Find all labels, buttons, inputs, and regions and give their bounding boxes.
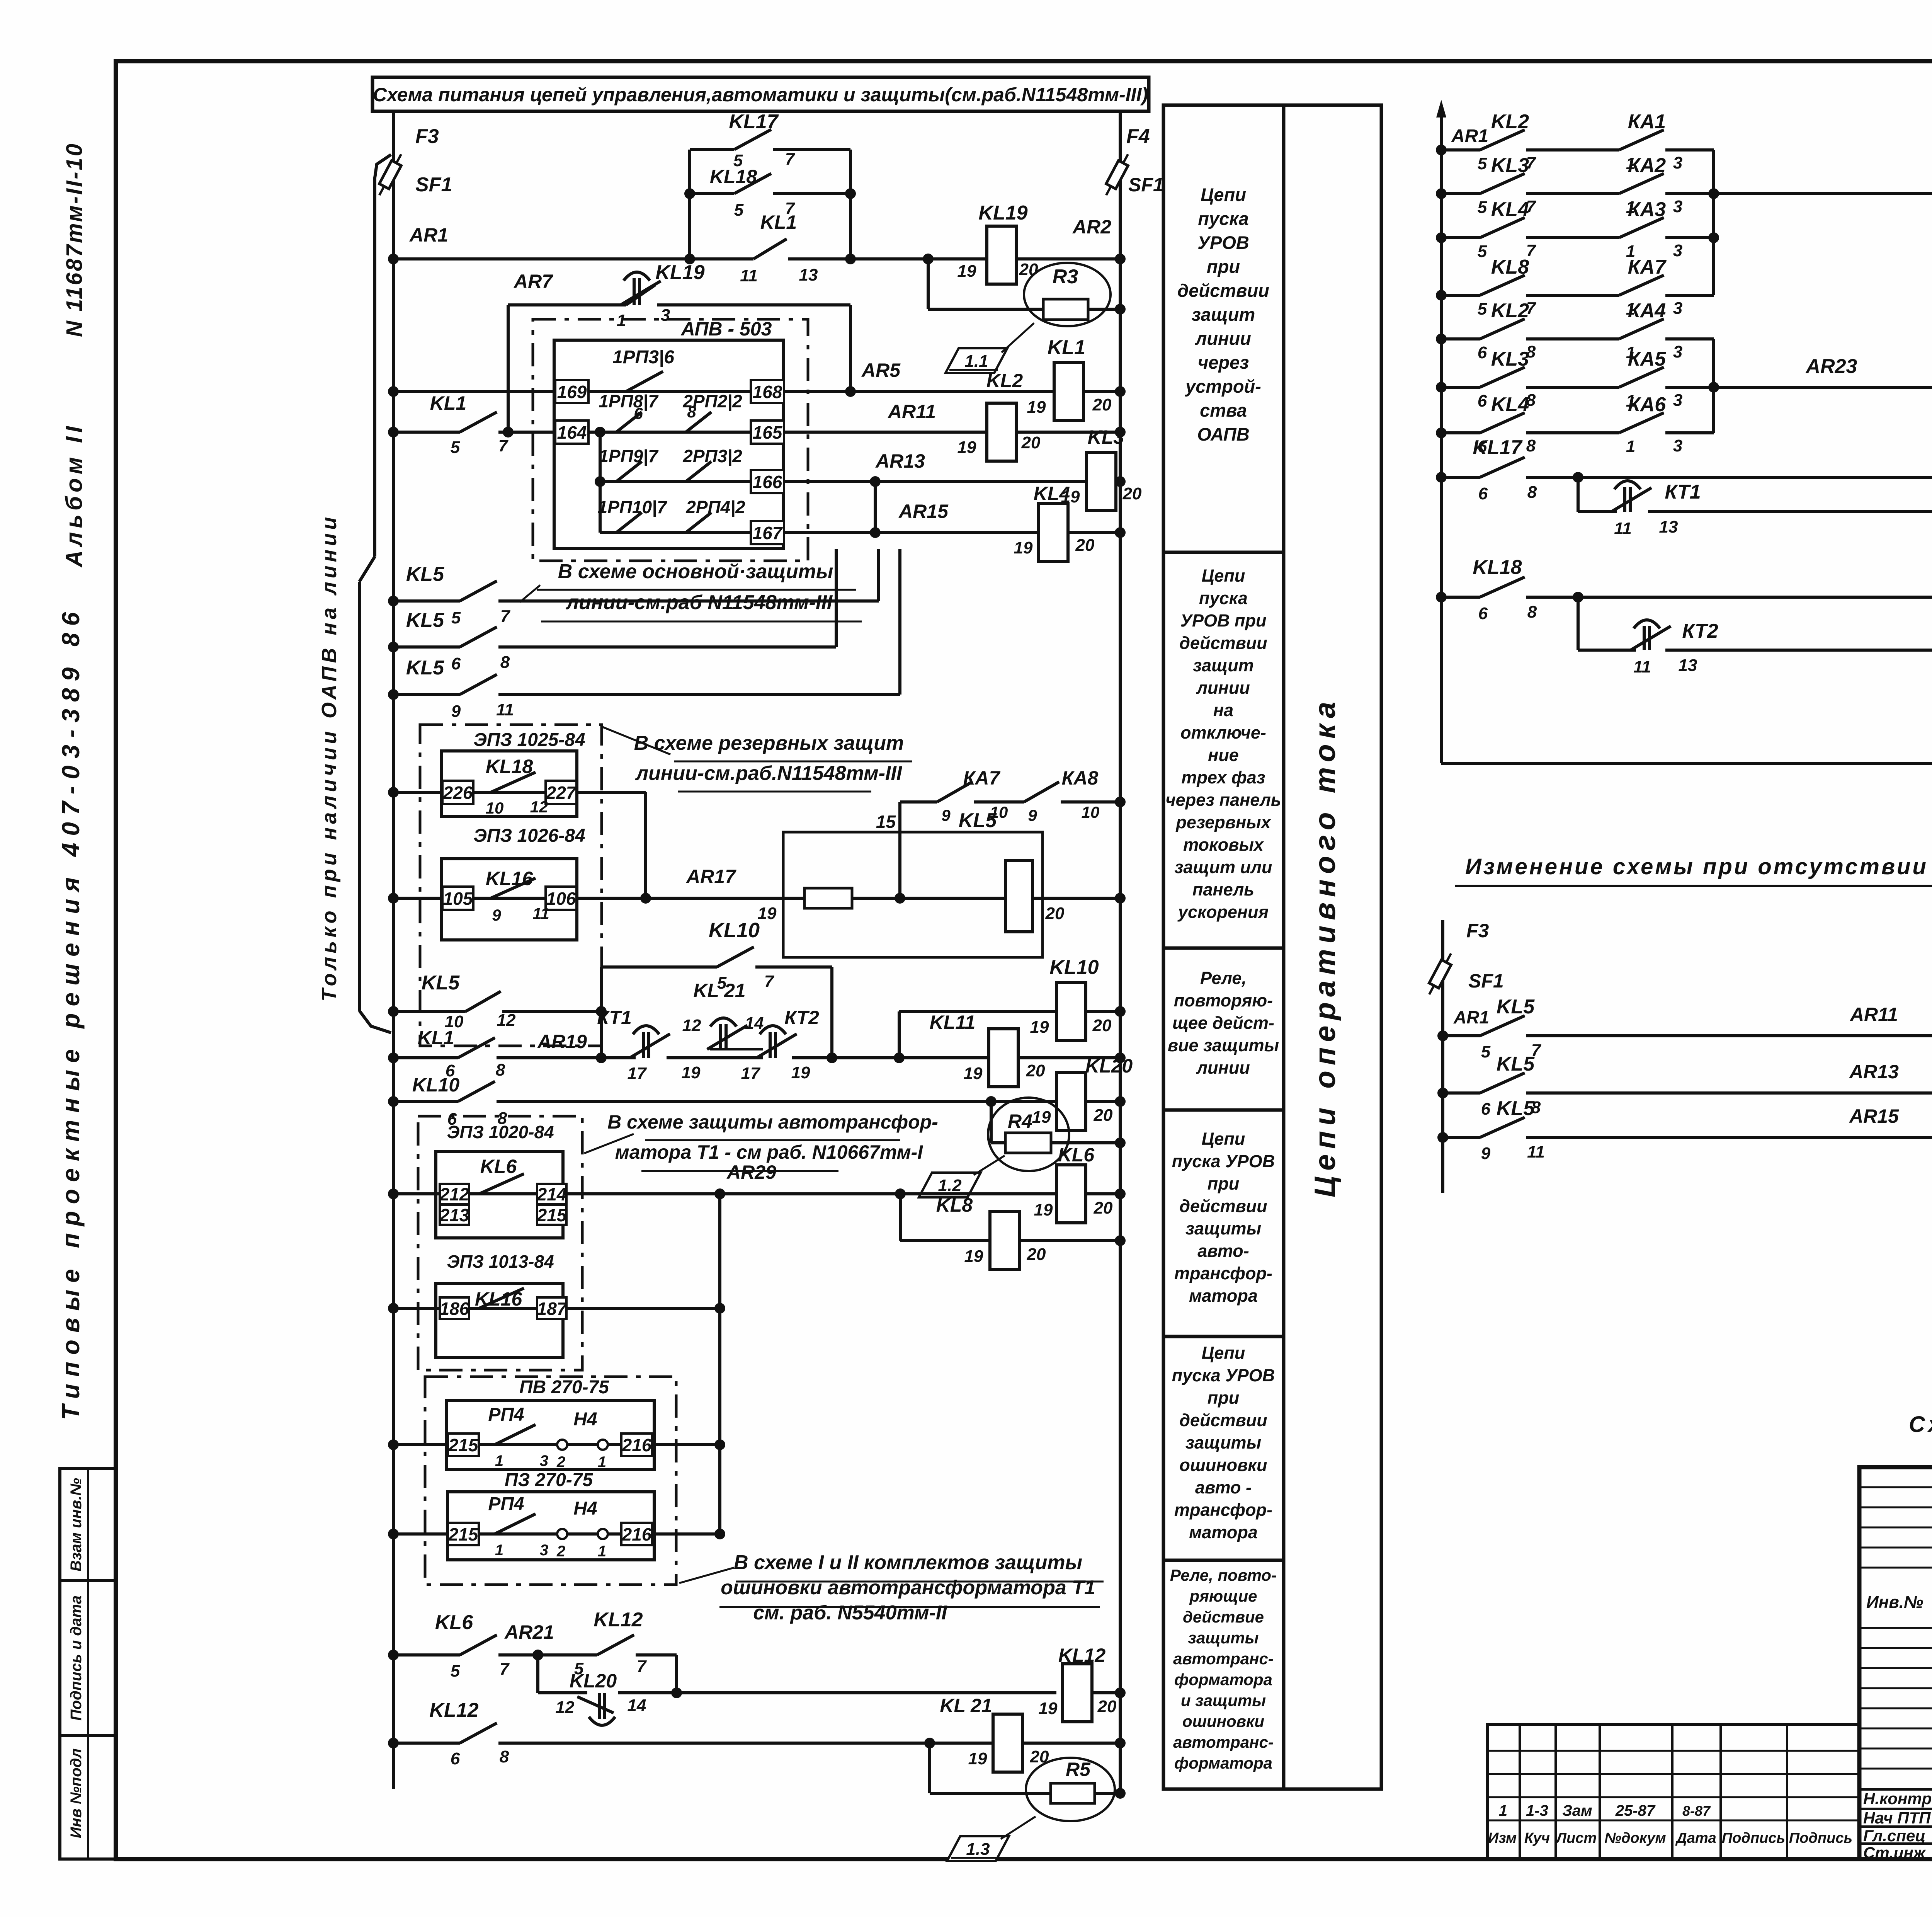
svg-text:ние: ние [1208, 745, 1239, 765]
svg-text:матора: матора [1189, 1286, 1258, 1306]
wire KL5 riser 9 [898, 549, 901, 695]
svg-text:трансфор-: трансфор- [1174, 1263, 1272, 1283]
svg-text:8: 8 [500, 1747, 509, 1766]
svg-text:матора Т1 - см раб. N10667тм-I: матора Т1 - см раб. N10667тм-I [615, 1141, 923, 1163]
svg-text:KL2: KL2 [1491, 300, 1529, 322]
svg-text:линии: линии [1195, 328, 1251, 349]
relay coil KL19 [987, 226, 1016, 284]
svg-text:Куч: Куч [1524, 1830, 1550, 1846]
wire KL18 row [690, 192, 734, 195]
svg-text:КА4: КА4 [1628, 300, 1666, 322]
svg-text:8: 8 [1526, 436, 1536, 455]
wire KT row [393, 1056, 458, 1059]
svg-text:19: 19 [957, 262, 976, 281]
svg-text:8: 8 [496, 1061, 505, 1079]
svg-text:7: 7 [637, 1657, 647, 1676]
svg-text:KL16: KL16 [486, 868, 533, 889]
fuse SF1 lower-left [1424, 951, 1456, 997]
wire KL12 6-8 row [393, 1742, 460, 1745]
contact RP4 row 1 [495, 1425, 536, 1445]
svg-text:через панель: через панель [1165, 790, 1281, 810]
terminal 212 [440, 1184, 469, 1204]
wire RP4 row 1 [393, 1443, 720, 1446]
wire KT1 contact row [1577, 477, 1580, 512]
svg-text:Дата: Дата [1675, 1830, 1716, 1846]
svg-text:Взам инв.№: Взам инв.№ [68, 1478, 85, 1571]
terminal 227 [546, 781, 577, 804]
svg-text:19: 19 [1030, 1018, 1049, 1037]
svg-text:Реле, повто-: Реле, повто- [1170, 1566, 1277, 1584]
svg-text:KL20: KL20 [1085, 1055, 1133, 1077]
svg-text:KL19: KL19 [978, 202, 1027, 224]
svg-text:при: при [1207, 1174, 1239, 1193]
svg-text:1РП3|6: 1РП3|6 [612, 347, 674, 368]
svg-text:1РП10|7: 1РП10|7 [598, 497, 668, 517]
contact 1RP8/7 [616, 412, 642, 432]
wire row KL2/КА1 [1441, 148, 1480, 152]
svg-text:на: на [1213, 700, 1233, 720]
svg-text:AR13: AR13 [1849, 1061, 1899, 1083]
contact KL12 6-8 [460, 1723, 497, 1743]
svg-text:KL 21: KL 21 [940, 1695, 992, 1716]
svg-text:KL8: KL8 [1491, 256, 1529, 278]
svg-text:1: 1 [1499, 1802, 1507, 1819]
svg-text:автотранс-: автотранс- [1173, 1650, 1274, 1668]
svg-text:1: 1 [495, 1452, 503, 1469]
svg-text:KL17: KL17 [729, 111, 779, 133]
contact KL12 5-7 [597, 1635, 634, 1655]
svg-text:8-87: 8-87 [1682, 1803, 1711, 1819]
resistor R5 [1051, 1783, 1095, 1803]
column divider [1163, 1559, 1284, 1562]
svg-text:Изменение схемы при отсутст: Изменение схемы при отсутствии ОАПВ на л… [1465, 854, 1932, 879]
svg-text:12: 12 [556, 1698, 575, 1717]
svg-text:AR5: AR5 [861, 359, 901, 381]
svg-text:AR2: AR2 [1072, 216, 1111, 238]
svg-text:KL 21: KL 21 [693, 980, 745, 1001]
contact KL2 5-7 [1480, 130, 1525, 150]
svg-text:и защиты: и защиты [1181, 1691, 1266, 1709]
contact KA8 9-10 [1024, 782, 1059, 802]
wire row KL3/КА2 [1441, 192, 1480, 195]
svg-text:AR11: AR11 [887, 401, 936, 422]
svg-text:19: 19 [1032, 1108, 1051, 1127]
relay coil KL11 [989, 1029, 1018, 1087]
svg-text:KL10: KL10 [709, 919, 760, 942]
svg-text:AR17: AR17 [685, 866, 736, 887]
contact KL4 5-7 [1480, 218, 1525, 238]
terminal 106 [546, 887, 577, 910]
svg-text:резервных: резервных [1175, 812, 1271, 832]
svg-text:166: 166 [753, 472, 782, 492]
svg-text:AR23: AR23 [1805, 355, 1857, 378]
wire KL10 branch [600, 967, 603, 1058]
svg-text:КТ2: КТ2 [784, 1007, 819, 1028]
svg-text:10: 10 [1082, 803, 1100, 821]
svg-text:5: 5 [451, 438, 460, 457]
svg-text:20: 20 [1094, 1199, 1113, 1217]
contact KL6 [479, 1174, 524, 1194]
svg-text:6: 6 [1478, 604, 1488, 623]
svg-text:215: 215 [448, 1435, 479, 1455]
svg-text:19: 19 [791, 1063, 810, 1082]
svg-text:KL6: KL6 [435, 1611, 473, 1634]
contact 2RP2/2 [686, 412, 711, 432]
relay coil KL8 [990, 1212, 1019, 1270]
contact KT1 time 11-13 [1611, 481, 1651, 512]
svg-text:19: 19 [758, 904, 777, 923]
svg-text:15: 15 [876, 812, 896, 832]
contact KT1 17-19 [630, 1026, 670, 1058]
svg-text:2РП3|2: 2РП3|2 [682, 446, 742, 466]
contact КА5 1-3 [1619, 367, 1664, 387]
svg-text:KL11: KL11 [930, 1011, 976, 1033]
svg-text:пуска: пуска [1199, 588, 1248, 608]
flag 1.1 [946, 348, 1007, 373]
svg-text:3: 3 [1673, 153, 1682, 172]
svg-text:7: 7 [764, 972, 775, 991]
svg-text:линии: линии [1196, 678, 1250, 698]
terminal 166 [751, 470, 784, 493]
contact KL5 9-11 [460, 674, 497, 695]
wire AR15 row [600, 531, 1039, 534]
svg-text:168: 168 [753, 382, 782, 402]
svg-text:В схеме I и II комплектов защ: В схеме I и II комплектов защиты [734, 1551, 1082, 1574]
block APV-503 dashed outline [533, 319, 808, 561]
svg-text:1РП9|7: 1РП9|7 [599, 446, 659, 466]
svg-text:5: 5 [1478, 198, 1487, 217]
svg-text:F4: F4 [1126, 125, 1150, 148]
svg-text:Н.контр: Н.контр [1863, 1789, 1932, 1808]
block RP4b solid box [447, 1492, 654, 1560]
svg-text:Подпись: Подпись [1789, 1830, 1852, 1846]
relay coil KL4 [1039, 504, 1068, 562]
contact KL16 9-11 [491, 878, 536, 898]
wire AR1 row [393, 257, 753, 260]
svg-text:защиты: защиты [1185, 1219, 1261, 1238]
contact КА2 1-3 [1619, 174, 1664, 194]
svg-text:13: 13 [1679, 656, 1697, 675]
svg-text:автотранс-: автотранс- [1173, 1733, 1274, 1751]
svg-text:19: 19 [1039, 1699, 1058, 1718]
contact KL10 5-7 [717, 947, 754, 967]
svg-text:защит: защит [1193, 655, 1254, 675]
svg-text:Ст.инж: Ст.инж [1863, 1844, 1926, 1862]
block KL16 solid box [441, 859, 577, 940]
svg-text:KL12: KL12 [594, 1609, 643, 1631]
terminal 215 [448, 1523, 479, 1545]
contact KL17 5-7 [734, 129, 771, 150]
block APV-503 solid box [554, 340, 783, 548]
svg-text:Подпись и дата: Подпись и дата [68, 1595, 85, 1721]
svg-text:SF1: SF1 [415, 174, 452, 196]
svg-text:6: 6 [451, 1749, 460, 1768]
svg-text:ЭПЗ 1025-84: ЭПЗ 1025-84 [473, 730, 585, 750]
contact 1RP9/7 [616, 461, 642, 482]
svg-text:защиты: защиты [1188, 1629, 1259, 1647]
wire KL5 10-12 row [393, 1010, 466, 1013]
svg-text:20: 20 [1092, 395, 1112, 414]
svg-text:пуска УРОВ: пуска УРОВ [1172, 1151, 1275, 1171]
relay coil KL5 [1005, 860, 1032, 932]
svg-text:106: 106 [546, 889, 576, 909]
svg-text:КА7: КА7 [963, 767, 1001, 789]
flag 1.2 [919, 1173, 981, 1197]
svg-text:KL3: KL3 [1491, 348, 1529, 370]
contact KL19 with mech tie 1-3 [621, 272, 661, 305]
svg-text:214: 214 [537, 1184, 567, 1204]
svg-text:5: 5 [451, 608, 461, 627]
wire row KL4/КА6 [1441, 431, 1480, 434]
contact KL18 10-12 [491, 772, 536, 792]
svg-text:KL1: KL1 [418, 1027, 454, 1049]
svg-text:KL12: KL12 [429, 1699, 478, 1721]
svg-text:АПВ - 503: АПВ - 503 [680, 318, 772, 340]
svg-text:12: 12 [682, 1016, 701, 1035]
wire AR5 row [393, 390, 1054, 393]
wire AR17 row [393, 897, 804, 900]
svg-text:KL5: KL5 [1497, 1053, 1535, 1075]
svg-text:R3: R3 [1053, 266, 1078, 288]
wire KL17 row [690, 148, 734, 151]
svg-text:25-87: 25-87 [1615, 1802, 1656, 1819]
resistor R4 [1005, 1133, 1051, 1153]
wire AR23 row [1714, 386, 1932, 389]
svg-text:Подпись: Подпись [1722, 1830, 1785, 1846]
svg-text:AR7: AR7 [513, 271, 553, 292]
svg-text:20: 20 [1021, 433, 1041, 452]
svg-text:В схеме основной·защиты: В схеме основной·защиты [558, 560, 833, 583]
wire R5 branch [928, 1743, 931, 1793]
svg-text:через: через [1198, 352, 1249, 373]
terminal 187 [537, 1297, 566, 1319]
wire KL18 226 row [393, 791, 646, 794]
contact KL5 6-8 [1480, 1073, 1525, 1093]
svg-text:SF1: SF1 [1468, 970, 1504, 992]
svg-text:9: 9 [941, 806, 951, 824]
relay coil KL3 [1087, 453, 1116, 511]
svg-text:трех фаз: трех фаз [1181, 768, 1265, 787]
svg-text:Цепи: Цепи [1202, 566, 1245, 586]
contact KL3 6-8 [1480, 367, 1525, 387]
wire KL6 5-7 row [393, 1653, 460, 1657]
svg-text:KL6: KL6 [480, 1156, 517, 1177]
wire riser 227-AR17 [644, 792, 647, 898]
contact КА1 1-3 [1619, 130, 1664, 150]
terminal 215 [448, 1433, 479, 1456]
svg-text:KL19: KL19 [655, 261, 704, 284]
svg-text:Схема выполнена на листах: Схема выполнена на листах 7,8,9 [1909, 1412, 1932, 1437]
svg-text:164: 164 [557, 422, 587, 443]
svg-text:трансфор-: трансфор- [1174, 1500, 1272, 1520]
svg-text:РП4: РП4 [488, 1494, 524, 1514]
svg-text:Альбом II: Альбом II [61, 422, 87, 568]
svg-text:N 11687тм-II-10: N 11687тм-II-10 [62, 142, 87, 337]
contact KL2 6-8 [1480, 319, 1525, 339]
svg-text:Н4: Н4 [573, 1498, 597, 1519]
svg-text:20: 20 [1027, 1245, 1046, 1264]
svg-text:защит: защит [1192, 304, 1255, 325]
svg-text:11: 11 [1527, 1142, 1545, 1161]
contact KL18 5-7 [734, 174, 771, 194]
svg-text:11: 11 [496, 700, 514, 719]
column divider [1163, 1335, 1284, 1338]
svg-text:KL8: KL8 [936, 1194, 973, 1216]
svg-text:9: 9 [451, 702, 461, 721]
contact KL6 5-7 [460, 1635, 497, 1655]
svg-text:8: 8 [500, 653, 510, 672]
svg-text:повторяю-: повторяю- [1174, 991, 1273, 1010]
lamp contact H4 row 2 [557, 1529, 567, 1539]
terminal 226 [442, 781, 473, 804]
fuse SF1 right [1101, 152, 1133, 197]
contact KL5 9-11 [1480, 1117, 1525, 1137]
svg-text:7: 7 [785, 199, 796, 218]
svg-text:6: 6 [1478, 343, 1487, 362]
terminal 216 [621, 1523, 652, 1545]
resistor in KL5 loop [804, 888, 852, 908]
terminal 105 [442, 887, 473, 910]
svg-text:2: 2 [556, 1454, 565, 1471]
svg-text:1.1: 1.1 [964, 352, 988, 371]
svg-text:11: 11 [1614, 519, 1632, 538]
svg-text:В схеме резервных защит: В схеме резервных защит [634, 732, 904, 754]
wire row KL2/КА4 [1441, 337, 1480, 340]
relay coil KL20 [1056, 1073, 1086, 1130]
wire KL17 row [1441, 476, 1480, 479]
contact KL21 12-14 [707, 1018, 747, 1049]
svg-text:20: 20 [1092, 1016, 1112, 1035]
svg-text:KL2: KL2 [1491, 111, 1529, 133]
title block signature rows [1859, 1788, 1932, 1791]
svg-text:6: 6 [1478, 392, 1487, 410]
svg-text:3: 3 [540, 1452, 548, 1469]
svg-text:см. раб. N5540тм-II: см. раб. N5540тм-II [753, 1602, 947, 1624]
wire KL19 row right riser [849, 305, 852, 392]
svg-text:форматора: форматора [1174, 1670, 1272, 1689]
svg-text:устрой-: устрой- [1185, 376, 1261, 397]
svg-text:Лист: Лист [1555, 1830, 1597, 1846]
terminal 165 [751, 421, 784, 444]
contact 1RP10/7 [616, 512, 642, 533]
svg-text:УРОВ при: УРОВ при [1180, 611, 1267, 630]
svg-text:KL4: KL4 [1491, 393, 1529, 416]
block KL18 solid box [441, 751, 577, 816]
svg-text:KL5: KL5 [406, 609, 444, 632]
svg-text:КА2: КА2 [1628, 154, 1666, 177]
svg-text:1: 1 [1626, 437, 1635, 456]
terminal 213 [440, 1205, 469, 1225]
svg-text:12: 12 [530, 798, 548, 816]
wire KL18 row [1441, 596, 1480, 599]
fuse SF1 left [374, 152, 406, 197]
wire riser AR13-AR15 [874, 482, 877, 533]
svg-text:КА1: КА1 [1628, 111, 1666, 133]
wire KL5 row 6-8 [393, 645, 460, 649]
wire right-schematic left bus [1440, 116, 1443, 763]
svg-text:3: 3 [1673, 241, 1682, 260]
wire left bus F3 [392, 111, 395, 1789]
wire row AR13 [1443, 1091, 1480, 1095]
contact КА6 1-3 [1619, 413, 1664, 433]
svg-text:авто-: авто- [1197, 1241, 1249, 1261]
svg-text:KL5: KL5 [406, 563, 444, 586]
wire KL20 bell row [536, 1655, 539, 1693]
svg-text:матора: матора [1189, 1522, 1258, 1542]
svg-text:KL5: KL5 [1497, 996, 1535, 1018]
title block outer [1859, 1467, 1932, 1859]
lamp contact H4 row 1 [557, 1440, 567, 1450]
svg-text:19: 19 [1027, 398, 1046, 417]
contact KL18 6-8 [1480, 577, 1525, 597]
svg-text:пуска: пуска [1198, 208, 1249, 229]
svg-text:ЭПЗ 1026-84: ЭПЗ 1026-84 [473, 826, 585, 846]
wire KL5 riser 6 [835, 549, 838, 647]
svg-text:169: 169 [557, 382, 587, 402]
svg-text:KL18: KL18 [486, 756, 533, 777]
terminal 167 [751, 521, 784, 544]
svg-text:1.3: 1.3 [966, 1840, 990, 1859]
svg-text:3: 3 [1673, 299, 1682, 318]
svg-text:5: 5 [451, 1662, 460, 1680]
svg-text:линии: линии [1196, 1058, 1250, 1078]
contact KL5 10-12 [466, 991, 501, 1011]
svg-text:В схеме защиты автотрансфор-: В схеме защиты автотрансфор- [607, 1111, 938, 1133]
svg-text:10: 10 [990, 803, 1008, 821]
resistor R3 [1043, 299, 1088, 320]
wire AR11 row [393, 431, 460, 434]
svg-text:ошиновки автотрансформатора Т1: ошиновки автотрансформатора Т1 [721, 1577, 1095, 1599]
flag 1.3 [947, 1836, 1009, 1861]
svg-text:линии-см.раб N11548тм-III: линии-см.раб N11548тм-III [565, 591, 833, 614]
svg-text:215: 215 [448, 1524, 479, 1544]
block EPZ1020 dashed outline [418, 1116, 582, 1370]
contact КА7 1-3 [1619, 275, 1664, 295]
svg-text:ускорения: ускорения [1177, 902, 1269, 922]
svg-text:линии-см.раб.N11548тм-III: линии-см.раб.N11548тм-III [635, 762, 903, 785]
svg-text:ПВ 270-75: ПВ 270-75 [519, 1377, 609, 1398]
svg-text:215: 215 [537, 1205, 567, 1225]
svg-text:F3: F3 [415, 125, 439, 148]
svg-text:ПЗ 270-75: ПЗ 270-75 [505, 1470, 593, 1490]
relay coil KL1 [1054, 363, 1083, 421]
wire KL10 6-8 row [393, 1100, 458, 1103]
svg-text:KL12: KL12 [1058, 1645, 1105, 1666]
wire group riser top [1712, 150, 1715, 295]
contact RP4 row 2 [495, 1514, 536, 1534]
svg-text:17: 17 [741, 1064, 761, 1083]
svg-text:3: 3 [1673, 197, 1682, 216]
block PV270 dashed outline [425, 1377, 676, 1585]
svg-text:186: 186 [440, 1299, 469, 1319]
wire KL5 row 5-7 [393, 599, 460, 603]
svg-text:19: 19 [957, 438, 976, 457]
svg-text:Типовые проектные решения 4: Типовые проектные решения 407-03-389 86 [57, 605, 85, 1420]
svg-text:AR19: AR19 [537, 1031, 587, 1052]
svg-text:13: 13 [1659, 518, 1678, 536]
svg-text:Схема питания цепей управления: Схема питания цепей управления,автоматик… [373, 84, 1148, 106]
wire KA7 KA8 row [900, 800, 937, 804]
svg-text:при: при [1207, 1388, 1239, 1408]
wire R3 branch [927, 259, 930, 309]
wire row AR11 [1443, 1034, 1480, 1037]
svg-text:KL4: KL4 [1491, 198, 1529, 221]
svg-text:Реле,: Реле, [1200, 968, 1247, 988]
svg-text:1: 1 [598, 1454, 606, 1471]
contact KT2 17-19 [757, 1026, 797, 1058]
svg-text:AR15: AR15 [898, 501, 949, 522]
contact KL5 5-7 [460, 581, 497, 601]
